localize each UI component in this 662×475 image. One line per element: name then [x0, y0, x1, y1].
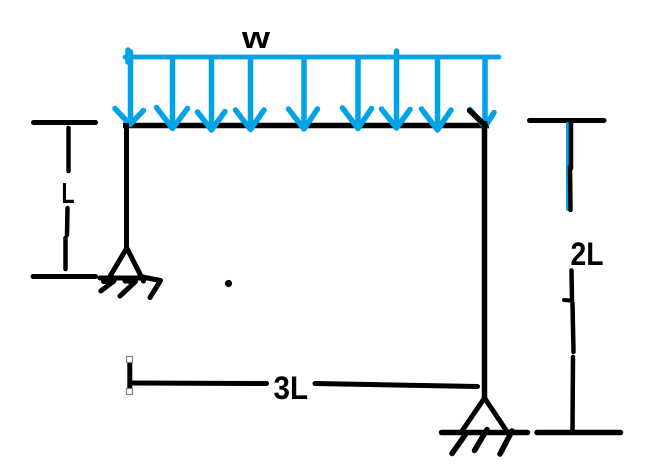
left dimension bottom tick	[33, 274, 96, 279]
bottom dimension left tick	[127, 361, 132, 391]
svg-text:3L: 3L	[274, 370, 309, 406]
load line (top of distributed load w)	[125, 55, 499, 60]
left pin support triangle	[111, 248, 144, 281]
bottom dimension line right part	[315, 384, 478, 387]
right dimension upper black segment a	[569, 123, 574, 168]
right support hatch 2	[475, 430, 488, 451]
svg-text:2L: 2L	[571, 236, 604, 272]
left dimension line lower segment a	[65, 208, 70, 235]
load arrow 4	[236, 58, 265, 130]
load arrow 1	[115, 52, 144, 125]
left dimension line upper segment	[66, 128, 71, 171]
left dimension line lower segment b	[63, 238, 68, 269]
right dimension bottom tick	[537, 430, 621, 436]
left support hatch 3	[143, 277, 161, 298]
right dimension lower segment a	[569, 271, 574, 302]
right dimension blue under-stroke	[566, 124, 570, 209]
load arrow 9 (at right corner)	[470, 58, 494, 127]
load arrow 6	[343, 58, 372, 129]
stray dot	[225, 280, 232, 287]
right pin support triangle	[461, 398, 507, 433]
left column	[124, 123, 129, 248]
load line start stub	[125, 50, 131, 62]
left dimension top tick	[34, 120, 96, 125]
bottom dimension line left part	[132, 381, 267, 387]
left support hatch 2	[120, 281, 136, 296]
svg-text:L: L	[62, 178, 75, 210]
right column	[482, 121, 488, 398]
svg-text:w: w	[241, 20, 271, 55]
load arrow 2	[157, 58, 188, 129]
beam right-end hook (overdrawn stroke)	[470, 111, 486, 126]
selection handle top	[127, 357, 133, 363]
right dimension lower segment c	[570, 357, 575, 430]
right support hatch 1	[452, 433, 467, 454]
beam (top horizontal member)	[123, 123, 489, 129]
right support hatch 3	[500, 431, 512, 454]
load arrow 5	[289, 58, 318, 129]
left support ground line	[100, 276, 148, 281]
right dimension top tick	[530, 118, 605, 123]
right dimension upper black segment b	[568, 167, 573, 210]
right support ground line	[442, 430, 528, 436]
load arrow 8	[422, 58, 452, 130]
right dimension lower segment b	[573, 303, 574, 352]
right dimension small cross tick	[564, 298, 570, 303]
load arrow 3	[198, 58, 226, 130]
left support hatch 1	[101, 281, 114, 291]
load arrow 7 with stub above line	[382, 51, 411, 128]
selection handle bottom	[127, 389, 133, 395]
